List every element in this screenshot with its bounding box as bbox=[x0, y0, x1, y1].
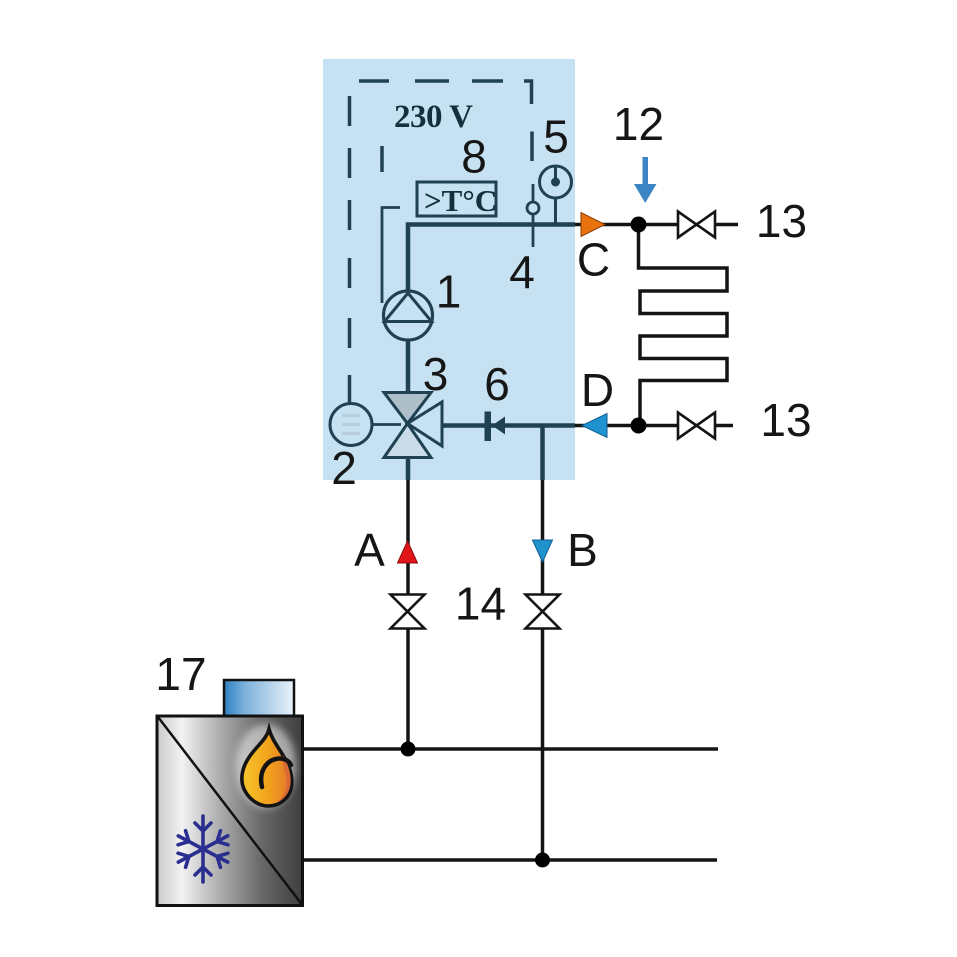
svg-text:5: 5 bbox=[543, 111, 569, 163]
svg-text:12: 12 bbox=[613, 98, 664, 150]
arrow 12 (blue, down) bbox=[634, 157, 657, 203]
svg-text:17: 17 bbox=[155, 648, 206, 700]
svg-text:D: D bbox=[581, 364, 614, 416]
boiler 17 body bbox=[157, 716, 303, 906]
temperature sensor 4 bbox=[527, 184, 539, 247]
pipe pump-to-valve bbox=[406, 330, 411, 393]
thermostat / actuator 2 bbox=[330, 404, 401, 446]
dashed 230V control boundary left bbox=[348, 96, 352, 403]
wire actuator-to-valve bbox=[372, 423, 401, 426]
shut-off valve on B (14) bbox=[526, 595, 560, 629]
pipe A (valve down to boiler line) bbox=[406, 457, 411, 480]
dashed wire to sensor 4 bbox=[530, 132, 534, 162]
hydraulic pump-group panel (light blue) bbox=[323, 59, 575, 480]
snowflake icon bbox=[175, 816, 232, 882]
node A-boiler bbox=[401, 742, 416, 757]
wire controller-to-pump bbox=[382, 208, 400, 304]
pipe return D outside panel bbox=[575, 424, 733, 428]
pipe supply outside panel bbox=[575, 223, 738, 227]
shut-off valve on A bbox=[391, 595, 425, 629]
thermometer 5 bbox=[540, 166, 572, 227]
svg-text:8: 8 bbox=[461, 131, 487, 183]
heating coil bbox=[639, 225, 728, 426]
svg-text:13: 13 bbox=[760, 394, 811, 446]
svg-text:C: C bbox=[577, 234, 610, 286]
pump 1 bbox=[384, 291, 433, 340]
flow arrow C (orange) bbox=[581, 213, 605, 237]
shut-off valve 13 bottom bbox=[678, 413, 715, 439]
pipe B (down to boiler line) bbox=[541, 480, 545, 860]
flow arrow A (red) bbox=[398, 541, 418, 563]
svg-text:2: 2 bbox=[331, 442, 357, 494]
controller box 8 (>T°C) bbox=[417, 182, 496, 216]
dashed 230V control boundary top bbox=[359, 79, 503, 83]
pipe boiler bottom bbox=[302, 858, 717, 862]
boiler 17 flue cap bbox=[224, 680, 294, 717]
flow arrow B (blue) bbox=[533, 540, 553, 562]
node at C bbox=[631, 217, 647, 233]
pipe boiler top bbox=[302, 747, 718, 751]
svg-text:A: A bbox=[354, 524, 385, 576]
svg-text:14: 14 bbox=[455, 578, 506, 630]
dashed 230V control boundary corner bbox=[524, 81, 532, 104]
flame icon bbox=[236, 724, 296, 808]
svg-text:>T°C: >T°C bbox=[424, 183, 497, 218]
dashed wire to pump 1 bbox=[380, 146, 384, 172]
pipe supply (pump to C) bbox=[408, 225, 575, 293]
flow arrow D (blue) bbox=[582, 414, 607, 438]
svg-text:6: 6 bbox=[484, 358, 510, 410]
svg-text:B: B bbox=[567, 524, 598, 576]
node B-boiler bbox=[535, 853, 550, 868]
shut-off valve 13 top bbox=[678, 212, 715, 238]
node at D bbox=[631, 418, 647, 434]
svg-text:1: 1 bbox=[436, 266, 462, 318]
boiler diagonal divider bbox=[158, 717, 302, 905]
check valve 6 bbox=[485, 412, 506, 442]
svg-text:3: 3 bbox=[423, 348, 449, 400]
pipe branch B inside panel bbox=[540, 426, 545, 481]
pipe return D (valve to panel edge) bbox=[442, 423, 575, 428]
svg-text:13: 13 bbox=[756, 195, 807, 247]
3-way mixing valve 3 bbox=[384, 393, 442, 458]
svg-text:4: 4 bbox=[509, 246, 535, 298]
